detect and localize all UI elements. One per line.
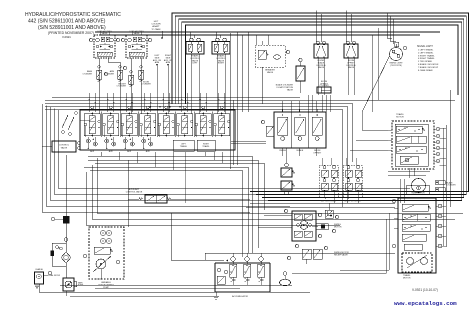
svg-text:TRAVEL: TRAVEL (180, 145, 187, 148)
svg-text:CONTROL: CONTROL (59, 145, 70, 147)
svg-text:CYLINDER: CYLINDER (116, 86, 126, 88)
svg-text:MOTOR: MOTOR (403, 277, 411, 279)
svg-text:RELIEF VALVE: RELIEF VALVE (334, 253, 348, 256)
svg-text:TRAVEL: TRAVEL (202, 145, 209, 148)
svg-text:4 RIGHT TRAVEL: 4 RIGHT TRAVEL (418, 57, 435, 60)
svg-text:VALVE: VALVE (102, 32, 109, 35)
svg-text:CYLINDER: CYLINDER (82, 73, 92, 75)
svg-text:VALVE: VALVE (134, 32, 141, 35)
svg-text:V-0921: V-0921 (62, 35, 71, 39)
svg-text:3 RIGHT TRAVEL: 3 RIGHT TRAVEL (418, 54, 435, 57)
svg-text:5 TWO SPEED: 5 TWO SPEED (418, 61, 433, 63)
svg-text:BLADE: BLADE (297, 149, 304, 152)
svg-text:ACCUMULATOR: ACCUMULATOR (232, 295, 248, 298)
svg-text:CYLINDER: CYLINDER (319, 85, 329, 87)
svg-text:LEFT JOYSTICK: LEFT JOYSTICK (321, 201, 337, 203)
svg-text:VALVE: VALVE (287, 88, 294, 91)
svg-text:MOTOR: MOTOR (396, 116, 404, 118)
svg-text:VALVE: VALVE (267, 71, 274, 74)
svg-text:442 (S/N 528611001 AND ABOVE): 442 (S/N 528611001 AND ABOVE) (28, 19, 106, 25)
svg-text:6 BLADE / BOOM DN: 6 BLADE / BOOM DN (418, 63, 439, 66)
svg-text:VALVE: VALVE (348, 66, 355, 69)
svg-text:CYLINDER: CYLINDER (104, 73, 114, 75)
svg-text:ARM: ARM (166, 61, 171, 64)
svg-text:CYLINDER: CYLINDER (141, 84, 151, 86)
svg-text:RIGHT JOYSTICK: RIGHT JOYSTICK (344, 201, 361, 203)
svg-text:HYDRAULIC/HYDROSTATIC SCHEMATI: HYDRAULIC/HYDROSTATIC SCHEMATIC (25, 12, 121, 18)
svg-text:MOTOR: MOTOR (334, 226, 342, 228)
svg-text:LEFT: LEFT (193, 63, 199, 65)
svg-text:CHARGE: CHARGE (35, 268, 43, 271)
svg-text:(7/8 PORTS): (7/8 PORTS) (390, 65, 402, 67)
svg-text:OFFSET: OFFSET (313, 152, 322, 154)
svg-text:ARM: ARM (155, 61, 160, 64)
svg-text:CONTROL VALVE: CONTROL VALVE (126, 190, 143, 193)
svg-text:RIGHT: RIGHT (218, 63, 225, 65)
svg-text:TO TANK: TO TANK (151, 28, 161, 31)
svg-text:SIGNAL LIGHT: SIGNAL LIGHT (417, 45, 433, 48)
svg-text:CYLINDER: CYLINDER (447, 185, 457, 187)
svg-text:VALVE: VALVE (318, 66, 325, 69)
svg-text:8 CASE DRAIN: 8 CASE DRAIN (418, 69, 433, 72)
svg-text:VALVE: VALVE (61, 147, 68, 150)
svg-text:ADAPT: ADAPT (152, 25, 160, 28)
svg-text:2 LEFT TRAVEL: 2 LEFT TRAVEL (418, 51, 434, 54)
svg-text:1 LEFT TRAVEL: 1 LEFT TRAVEL (418, 49, 434, 52)
svg-text:7 BLADE / BOOM UP: 7 BLADE / BOOM UP (418, 66, 439, 69)
svg-text:SWING: SWING (279, 150, 286, 152)
svg-text:(PRINTED NOVEMBER 2007): (PRINTED NOVEMBER 2007) (48, 31, 94, 35)
svg-text:SWING MOTOR: SWING MOTOR (411, 193, 425, 195)
